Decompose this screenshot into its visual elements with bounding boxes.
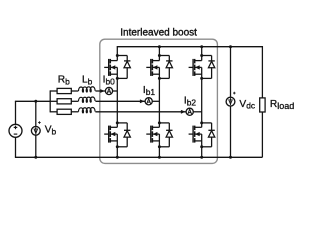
diode D3 antiparallel with Q3 <box>202 56 215 79</box>
node top bus Vdc tap <box>229 45 232 48</box>
node bottom bus junction x=159.4 <box>158 156 161 159</box>
diode D6 antiparallel with Q6 <box>202 123 215 147</box>
resistor Rb branch 1 <box>57 99 71 104</box>
svg-text:Vb: Vb <box>45 125 57 137</box>
node Q3 drain junction <box>200 54 203 57</box>
wire branch 1 R-L link <box>71 100 78 102</box>
current direction arrow Ib1 <box>140 99 145 103</box>
wire ammeter Ib1 to leg 1 <box>152 100 159 102</box>
wire branch 0 R-L link <box>71 90 78 92</box>
node Q4 source junction <box>116 145 119 148</box>
inductor Lb branch 0 <box>79 87 96 92</box>
node top bus leg 1 tap <box>158 45 161 48</box>
wire leg 1 to bottom bus <box>158 147 160 158</box>
inductor Lb branch 1 <box>79 97 96 102</box>
svg-text:Ib2: Ib2 <box>184 96 197 108</box>
wire leg 2 phase vertical <box>201 78 203 123</box>
wire leg 1 bus stub <box>158 47 160 56</box>
dc voltage source Vb <box>9 124 22 137</box>
label plus polarity of Vdc meter <box>233 92 236 95</box>
voltmeter Vb <box>31 126 40 135</box>
ammeter Ib2 <box>186 108 193 115</box>
transistor Q1 (MOSFET) <box>104 56 117 79</box>
wire source top lead <box>15 101 17 124</box>
node Q1 drain junction <box>116 54 119 57</box>
node bottom bus junction x=35.8 <box>34 156 37 159</box>
ammeter Ib1 <box>145 98 152 105</box>
wire ammeter Ib0 to leg 0 <box>113 90 118 92</box>
wire Vb meter bottom lead <box>35 135 37 157</box>
wire input feed <box>15 100 50 102</box>
diode D4 antiparallel with Q4 <box>117 123 130 147</box>
current direction arrow Ib2 <box>181 110 186 114</box>
resistor Rb branch 2 <box>57 109 71 114</box>
current direction arrow Ib0 <box>100 89 105 93</box>
svg-text:Lb: Lb <box>82 74 93 86</box>
node Q6 source junction <box>200 145 203 148</box>
svg-text:Rload: Rload <box>270 99 294 111</box>
resistor Rload <box>260 98 265 112</box>
wire leg 0 to bottom bus <box>116 147 118 158</box>
node Q6 drain junction <box>200 121 203 124</box>
wire Vdc meter bottom lead <box>230 106 232 157</box>
wire branch 2 to ammeter <box>95 111 186 113</box>
svg-text:Ib1: Ib1 <box>143 85 156 97</box>
label plus polarity of Vb meter <box>38 121 41 124</box>
node Q1 source junction <box>116 77 119 80</box>
wire bottom return bus <box>15 156 263 158</box>
transistor Q4 (MOSFET) <box>104 123 117 147</box>
resistor Rb branch 0 <box>57 88 71 93</box>
wire branch 2 R-L link <box>71 111 78 113</box>
transistor Q5 (MOSFET) <box>146 123 159 147</box>
transistor Q3 (MOSFET) <box>189 56 202 79</box>
wire source bottom lead <box>15 137 17 157</box>
wire top dc bus <box>117 47 262 98</box>
diode D1 antiparallel with Q1 <box>117 56 130 79</box>
interleaved boost enclosure box <box>100 39 218 163</box>
diode D5 antiparallel with Q5 <box>159 123 172 147</box>
wire Rload bottom lead <box>261 112 263 157</box>
node top bus leg 2 tap <box>200 45 203 48</box>
node Q2 source junction <box>158 77 161 80</box>
inductor Lb branch 2 <box>79 108 96 113</box>
wire branch split vertical <box>49 90 51 112</box>
wire branch 1 left lead <box>50 100 57 102</box>
wire leg 1 phase vertical <box>158 78 160 123</box>
svg-text:Ib0: Ib0 <box>103 75 116 87</box>
node Q4 drain junction <box>116 121 119 124</box>
node bottom bus junction x=201.7 <box>200 156 203 159</box>
wire branch 1 to ammeter <box>95 100 145 102</box>
wire Vdc meter top lead <box>230 47 232 98</box>
wire Vb meter top lead <box>35 101 37 126</box>
svg-text:Interleaved boost: Interleaved boost <box>120 28 197 39</box>
transistor Q6 (MOSFET) <box>189 123 202 147</box>
wire leg 2 to bottom bus <box>201 147 203 158</box>
wire leg 0 phase vertical <box>116 78 118 123</box>
node Q2 drain junction <box>158 54 161 57</box>
wire leg 2 bus stub <box>201 47 203 56</box>
node Q5 drain junction <box>158 121 161 124</box>
node bottom bus junction x=230.5 <box>229 156 232 159</box>
ammeter Ib0 <box>105 87 112 94</box>
wire branch 0 to ammeter <box>95 90 105 92</box>
voltmeter Vdc <box>226 97 235 106</box>
svg-text:Vdc: Vdc <box>239 99 255 111</box>
wire ammeter Ib2 to leg 2 <box>193 111 201 113</box>
transistor Q2 (MOSFET) <box>146 56 159 79</box>
node Q3 source junction <box>200 77 203 80</box>
wire branch 0 left lead <box>50 90 57 92</box>
node bottom bus junction x=117.3 <box>116 156 119 159</box>
node Q5 source junction <box>158 145 161 148</box>
wire branch 2 left lead <box>50 111 57 113</box>
diode D2 antiparallel with Q2 <box>159 56 172 79</box>
node Vb meter tap junction <box>34 100 37 103</box>
svg-text:Rb: Rb <box>58 74 70 86</box>
